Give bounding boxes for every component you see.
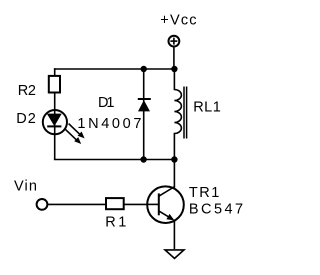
svg-text:D2: D2: [16, 111, 36, 127]
wire input to R1: [47, 203, 106, 205]
svg-text:RL1: RL1: [193, 100, 221, 116]
svg-text:TR1: TR1: [189, 185, 219, 201]
svg-text:+Vcc: +Vcc: [160, 12, 196, 28]
wire bottom rail: [54, 159, 175, 161]
svg-text:Vin: Vin: [14, 179, 37, 195]
diode D1: [138, 69, 151, 160]
LED arrow 1: [69, 124, 85, 139]
wire top rail: [54, 68, 175, 70]
input terminal Vin: [37, 199, 48, 210]
LED D2: [43, 93, 67, 160]
wire Vcc stub: [173, 47, 175, 69]
junction node coil top: [171, 66, 177, 72]
wire R1 to base: [124, 203, 148, 205]
LED arrow 2: [66, 130, 82, 144]
svg-text:R2: R2: [18, 83, 36, 99]
ground: [165, 250, 184, 259]
wire collector: [173, 160, 175, 188]
resistor R1: [106, 198, 124, 209]
wire emitter: [173, 220, 175, 249]
svg-text:BC547: BC547: [189, 201, 243, 217]
power terminal +Vcc: [169, 36, 180, 47]
wire left stub to R2: [54, 68, 56, 76]
junction node D1 top: [141, 66, 147, 72]
resistor R2: [49, 76, 60, 93]
junction node D1 bottom: [140, 156, 146, 162]
relay coil RL1: [174, 69, 186, 160]
transistor TR1: [147, 186, 184, 223]
svg-text:D1: D1: [98, 95, 114, 111]
junction node collector: [171, 156, 177, 162]
